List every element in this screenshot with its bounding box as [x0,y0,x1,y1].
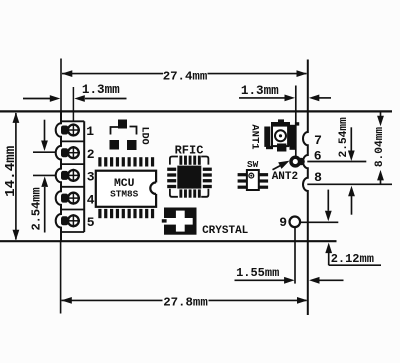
svg-text:ANT2: ANT2 [272,171,298,183]
svg-text:2.54mm: 2.54mm [338,117,350,158]
svg-text:LDO: LDO [138,127,149,145]
svg-text:1.55mm: 1.55mm [236,266,279,280]
svg-text:6: 6 [314,148,322,163]
svg-text:ANT1: ANT1 [248,124,260,149]
svg-text:2: 2 [87,147,95,162]
svg-text:7: 7 [314,133,322,148]
svg-text:SW: SW [247,159,259,170]
svg-text:1.3mm: 1.3mm [82,83,120,97]
svg-text:9: 9 [279,215,287,230]
svg-text:2.54mm: 2.54mm [30,187,44,230]
svg-text:RFIC: RFIC [175,143,204,157]
svg-text:1.3mm: 1.3mm [241,84,279,98]
svg-text:1: 1 [86,124,94,139]
svg-text:3: 3 [87,170,95,185]
svg-text:14.4mm: 14.4mm [3,146,19,197]
svg-text:4: 4 [87,192,95,207]
svg-text:8: 8 [314,170,322,185]
svg-text:2.12mm: 2.12mm [331,252,374,266]
svg-text:27.8mm: 27.8mm [163,296,208,310]
svg-text:STM8S: STM8S [110,188,139,199]
svg-text:8.04mm: 8.04mm [374,127,386,168]
svg-text:CRYSTAL: CRYSTAL [202,225,249,237]
svg-text:5: 5 [87,215,95,230]
svg-text:27.4mm: 27.4mm [163,70,208,84]
